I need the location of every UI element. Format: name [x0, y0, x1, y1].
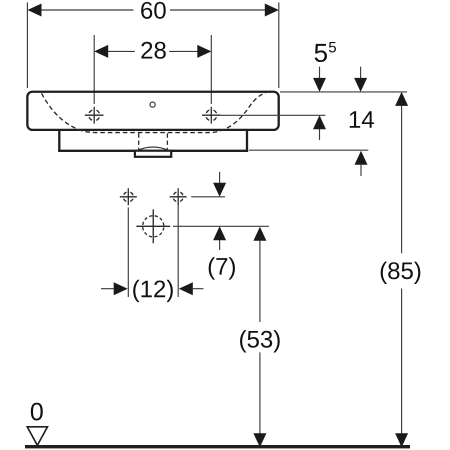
floor line	[25, 445, 410, 448]
pedestal bottom right segment	[171, 150, 248, 152]
drain level line	[173, 225, 269, 227]
dim 12: right arrow line	[179, 282, 193, 295]
dimension 28: line right segment	[169, 50, 198, 52]
label 0	[31, 403, 43, 421]
dim 53: lower shaft	[259, 352, 261, 433]
washbasin outline (front view)	[27, 92, 278, 130]
dim 53: upper shaft	[259, 241, 261, 323]
pedestal left edge	[58, 130, 60, 152]
label (7)	[209, 257, 235, 279]
dimension 28: left extension line	[93, 35, 95, 104]
dimension 60: label	[141, 2, 166, 19]
dimension 60: line left segment	[41, 9, 134, 11]
label (53)	[240, 330, 280, 352]
water supply symbol left: dashed circle	[123, 192, 133, 202]
reference line: basin top extended	[280, 91, 407, 93]
5.5 dim: lower up arrow	[313, 115, 326, 129]
dimension 60: left extension line	[26, 2, 28, 88]
tap hole right: dashed circle	[206, 110, 217, 121]
supply drop line left	[127, 207, 129, 297]
dim 85: lower shaft	[401, 289, 403, 434]
siphon cover arc	[138, 147, 168, 150]
dim 7: upper down arrow	[219, 172, 221, 184]
dim 12: left arrow line	[101, 288, 114, 290]
overflow hole	[150, 102, 155, 107]
14 dim: lower up arrow	[355, 151, 368, 165]
dimension 60: left arrow	[28, 4, 42, 17]
drain symbol: dashed circle	[143, 216, 164, 237]
reference line: tap hole level extended	[221, 114, 326, 116]
label (12)	[133, 280, 173, 302]
drain symbol: crosshair	[136, 209, 170, 243]
water supply symbol right: dashed circle	[173, 192, 183, 202]
dim 7: lower up arrow	[213, 226, 226, 240]
pedestal bottom left segment	[58, 150, 135, 152]
dim 85: bottom down arrow	[395, 433, 408, 447]
tap hole left: dashed circle	[89, 110, 100, 121]
dim 85: top up arrow	[395, 92, 408, 106]
basin bowl hidden contour (dashed)	[42, 93, 267, 133]
tap hole right: crosshair	[202, 107, 221, 124]
siphon hidden edges (dashed verticals)	[139, 133, 168, 149]
dimension 60: line right segment	[170, 9, 266, 11]
dimension 60: right extension line	[278, 2, 280, 88]
siphon cover box	[135, 151, 171, 157]
floor datum triangle	[27, 427, 47, 446]
dim 85: upper shaft	[401, 106, 403, 254]
5.5 dim: upper down arrow	[319, 67, 321, 80]
14 dim: upper down arrow	[360, 67, 362, 80]
supply level line	[191, 196, 225, 198]
dim 53: bottom down arrow	[253, 433, 266, 447]
reference line: pedestal bottom level extended	[249, 149, 368, 151]
dimension 28: line left segment	[108, 50, 135, 52]
dimension 28: right arrow	[197, 45, 211, 58]
label 5^5	[315, 44, 327, 62]
water supply symbol left: crosshair	[120, 188, 137, 205]
dimension 28: label	[141, 42, 165, 59]
pedestal right edge	[246, 130, 248, 152]
tap hole left: crosshair	[85, 107, 104, 124]
water supply symbol right: crosshair	[170, 188, 187, 205]
dimension 28: right extension line	[210, 35, 212, 104]
dimension 60: right arrow	[265, 4, 279, 17]
label 14	[350, 111, 374, 128]
supply drop line right	[177, 205, 179, 297]
label (85)	[381, 262, 421, 284]
dim 53: top up arrow	[253, 227, 266, 241]
dimension 28: left arrow	[94, 45, 108, 58]
